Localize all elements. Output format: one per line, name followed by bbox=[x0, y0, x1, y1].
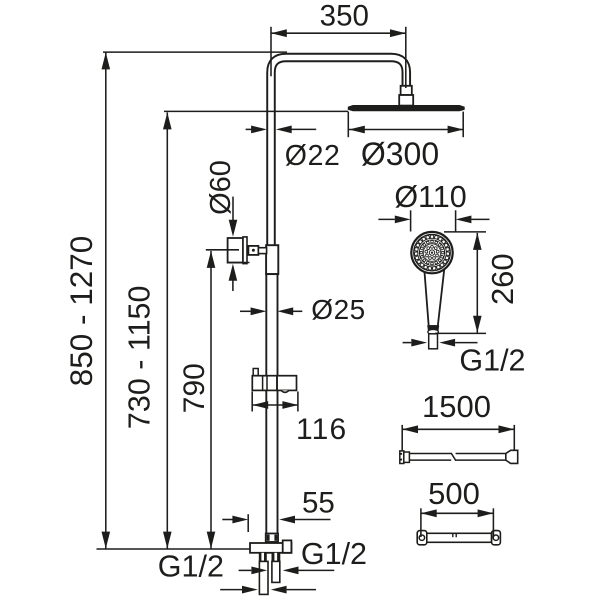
handle outlet nipple bbox=[429, 334, 438, 349]
dimension Ø300 label bbox=[361, 136, 439, 172]
tee side outlet bbox=[283, 540, 292, 552]
extension line left of 1500 bbox=[401, 425, 403, 452]
extension line right of 1500 bbox=[513, 425, 515, 450]
extension line right of 500 bbox=[492, 508, 494, 537]
svg-text:55: 55 bbox=[302, 487, 335, 520]
wall bracket plate bbox=[228, 238, 243, 263]
bracket bottom extension line bbox=[227, 262, 249, 264]
tee outlet dimension arrows row 2 bbox=[220, 586, 316, 594]
dimension 1500 line bbox=[402, 425, 514, 433]
lower column tube bbox=[266, 274, 277, 534]
dimension Ø60 label bbox=[205, 160, 237, 215]
extension line right of 116 bbox=[297, 392, 299, 412]
wall bracket flange bbox=[243, 237, 247, 264]
svg-text:Ø25: Ø25 bbox=[311, 294, 365, 325]
dimension Ø22 arrows bbox=[246, 126, 317, 134]
dimension 116 line bbox=[252, 401, 298, 409]
right outlet pipe bbox=[272, 561, 280, 582]
hose conical fitting bbox=[506, 450, 518, 463]
svg-text:116: 116 bbox=[296, 413, 347, 446]
dimension 500 line bbox=[421, 509, 494, 517]
wall bar body bbox=[427, 533, 492, 542]
extension line left of 350 bbox=[270, 27, 272, 77]
hand shower inner nozzle ring bbox=[420, 241, 444, 265]
left outlet pipe bbox=[259, 561, 268, 594]
right outlet nut bbox=[272, 553, 281, 562]
dimension Ø300 line bbox=[349, 126, 463, 134]
extension line left of Ø110 bbox=[410, 210, 412, 231]
hand shower G1/2 arrows bbox=[403, 339, 478, 347]
column base nut bbox=[266, 534, 278, 542]
dimension 790 line bbox=[207, 251, 216, 549]
svg-text:1500: 1500 bbox=[422, 389, 491, 424]
extension line right of 350 bbox=[405, 27, 407, 88]
handle end cap bbox=[427, 325, 439, 334]
dimension 350 label bbox=[320, 0, 369, 33]
dimension 500 label bbox=[428, 476, 480, 511]
svg-text:G1/2: G1/2 bbox=[158, 550, 224, 584]
dimension Ø110 label bbox=[394, 180, 466, 214]
dimension 730-1150 label bbox=[123, 286, 157, 430]
wall bar centre marks bbox=[453, 533, 456, 537]
overhead shower disc bbox=[348, 105, 464, 111]
dimension Ø110 arrows bbox=[378, 216, 489, 224]
svg-text:Ø110: Ø110 bbox=[394, 180, 466, 214]
thread label G1/2 bottom left bbox=[158, 550, 224, 584]
hand shower middle circle bbox=[419, 240, 445, 266]
telescopic sleeve joint bbox=[266, 245, 278, 274]
extension line for 55 bbox=[247, 514, 249, 532]
extension line top 730-1150 bbox=[164, 110, 348, 112]
dimension 260 line bbox=[473, 233, 482, 333]
shower arm nut bbox=[401, 86, 412, 95]
thread label G1/2 at tee bbox=[301, 537, 367, 571]
dimension Ø60 lower arrow bbox=[229, 264, 238, 291]
extension line top 850-1270 bbox=[103, 51, 287, 53]
slider lock tab bbox=[253, 369, 258, 376]
tee body bbox=[250, 543, 291, 553]
extension line top 790 bbox=[206, 249, 239, 251]
svg-text:850 - 1270: 850 - 1270 bbox=[63, 236, 99, 387]
hose break mark bbox=[451, 452, 456, 461]
svg-text:Ø300: Ø300 bbox=[361, 136, 439, 172]
riser pipe and top arm bbox=[271, 58, 406, 247]
hose left nut bbox=[400, 451, 410, 464]
svg-text:350: 350 bbox=[320, 0, 369, 33]
wall bar left cap bbox=[417, 531, 427, 545]
dimension Ø25 label bbox=[311, 294, 365, 325]
extension line bottom of 260 bbox=[435, 332, 486, 334]
dimension 55 label bbox=[302, 487, 335, 520]
dimension 116 label bbox=[296, 413, 347, 446]
dimension 850-1270 line bbox=[102, 52, 111, 548]
svg-text:730 - 1150: 730 - 1150 bbox=[123, 286, 157, 430]
svg-text:Ø22: Ø22 bbox=[285, 140, 341, 172]
extension line top of 260 bbox=[444, 231, 486, 233]
dimension 730-1150 line bbox=[163, 112, 172, 548]
left outlet nut bbox=[259, 553, 267, 562]
shower head connector block bbox=[399, 95, 413, 106]
dimension 55 arrows bbox=[222, 516, 330, 524]
slider body bbox=[252, 376, 296, 393]
dimension Ø25 arrows bbox=[240, 307, 302, 315]
extension line left of 116 bbox=[251, 392, 253, 412]
svg-text:500: 500 bbox=[428, 476, 480, 511]
svg-text:260: 260 bbox=[485, 253, 520, 305]
hand shower outer nozzle ring bbox=[414, 235, 449, 270]
pipe through slider bbox=[267, 376, 277, 391]
svg-text:G1/2: G1/2 bbox=[301, 537, 367, 571]
svg-text:G1/2: G1/2 bbox=[459, 343, 525, 377]
tee outlet dimension arrows row 1 bbox=[239, 567, 335, 575]
wall bar right cap bbox=[492, 531, 501, 545]
hand shower handle bbox=[424, 268, 444, 326]
dimension 850-1270 label bbox=[63, 236, 99, 387]
extension line left of Ø300 bbox=[347, 112, 349, 138]
bottom reference baseline bbox=[97, 548, 251, 550]
svg-text:Ø60: Ø60 bbox=[205, 160, 237, 215]
dimension 790 label bbox=[178, 363, 211, 413]
hand shower head rim bbox=[411, 232, 452, 273]
hand shower spray face bbox=[423, 244, 440, 261]
thread label G1/2 hand shower bbox=[459, 343, 525, 377]
dimension 350 line bbox=[271, 29, 406, 37]
dimension 1500 label bbox=[422, 389, 491, 424]
extension line right of Ø110 bbox=[455, 210, 457, 231]
dimension Ø60 upper arrow bbox=[229, 197, 238, 237]
hose body bbox=[409, 454, 506, 461]
bracket pivot block bbox=[248, 246, 258, 255]
extension line left of 500 bbox=[420, 508, 422, 537]
dimension Ø22 label bbox=[285, 140, 341, 172]
extension line right of Ø300 bbox=[462, 112, 464, 138]
svg-text:790: 790 bbox=[178, 363, 211, 413]
dimension 260 label bbox=[485, 253, 520, 305]
bracket stem bbox=[258, 248, 266, 254]
